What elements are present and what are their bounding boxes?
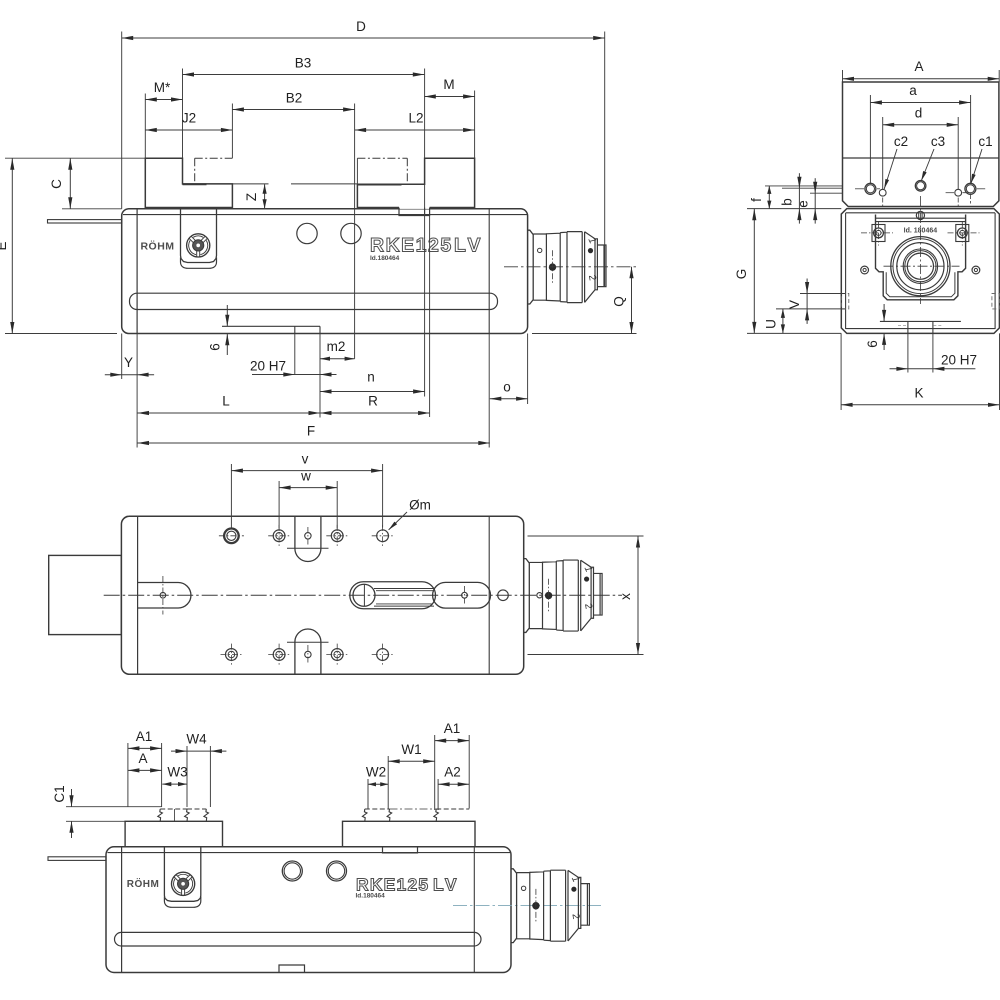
C1 extension lines (66, 806, 162, 808)
svg-text:b: b (780, 198, 795, 206)
E extension bottom (5, 333, 117, 335)
jaw mount pad view3 (433, 582, 491, 608)
svg-text:A1: A1 (444, 721, 461, 736)
knob housing view4 (164, 847, 200, 901)
svg-text:Id.180464: Id.180464 (356, 893, 386, 900)
small screw on spindle view1 (538, 248, 542, 252)
dimension C1 (71, 789, 73, 807)
small hole c2 view2 (879, 189, 886, 196)
dimension M* (145, 99, 182, 101)
right bearing view2 (956, 225, 969, 242)
outer hole right c1 view2 (965, 183, 976, 194)
clamp knob view1 (187, 234, 210, 257)
dimension a (870, 102, 970, 104)
left bearing view2 (872, 225, 885, 242)
svg-text:o: o (503, 380, 511, 395)
top notch view4 (383, 847, 418, 853)
bottom recess line view2 (880, 320, 961, 322)
dimension Y (105, 374, 154, 376)
dimension C (69, 158, 71, 209)
svg-text:B2: B2 (286, 91, 303, 106)
jaw gap line view1 (207, 183, 269, 185)
left jaw block view1 (145, 158, 232, 207)
dimension m2 (320, 358, 355, 360)
fixed jaw plate line view1 (136, 209, 138, 334)
dimension o (490, 398, 528, 400)
body outline view2 (841, 209, 999, 334)
svg-text:Y: Y (124, 355, 133, 370)
spindle bore circles view2 (891, 237, 950, 296)
jaw plate block view2 (843, 82, 999, 207)
spindle screw view3 (537, 593, 542, 598)
hole level stub lines view2 (765, 185, 843, 187)
dimension W3 (162, 783, 187, 785)
bore center lines view2 (884, 265, 960, 267)
dimension M (424, 96, 474, 98)
clamp knob view4 (172, 872, 195, 895)
top hole row view3 (224, 529, 239, 544)
dimension Q (631, 267, 633, 334)
svg-text:Øm: Øm (409, 498, 431, 513)
side stop bar view4 (48, 857, 106, 861)
hidden keyway right view2 (992, 294, 1000, 309)
fixed plate line view4 (121, 847, 123, 973)
body top notch view1 (400, 208, 429, 209)
drawbar slot view3 (350, 582, 436, 609)
dimension W4 (171, 750, 226, 752)
extension lines view2 (842, 70, 844, 82)
cavity top rails view2 (876, 217, 966, 219)
body end-cap line view1 (488, 209, 490, 334)
svg-text:F: F (307, 424, 315, 439)
svg-text:f: f (749, 198, 764, 202)
svg-text:e: e (796, 200, 811, 208)
svg-text:C: C (49, 179, 64, 189)
Q bottom extension (532, 333, 637, 335)
spindle screw view4 (521, 886, 525, 890)
left clamp plate view4 (125, 821, 222, 847)
stop stud left-2 view4 (204, 809, 209, 821)
dimension b (798, 173, 800, 223)
hole circles view4 (282, 861, 302, 881)
svg-text:c3: c3 (931, 134, 945, 149)
dimension f (768, 186, 770, 209)
svg-text:R: R (368, 394, 378, 409)
slide cavity view2 (876, 215, 966, 300)
micrometer spindle view1 (528, 230, 606, 304)
svg-text:x: x (618, 593, 633, 600)
svg-text:W3: W3 (167, 765, 187, 780)
side screw left view2 (861, 266, 869, 274)
leader c2 (884, 149, 897, 189)
keyway groove view1 (294, 326, 296, 333)
right clamp plate view4 (343, 821, 476, 847)
dimension A2 (438, 783, 469, 785)
right jaw step dark edge (357, 184, 401, 186)
pad hole view3 (462, 592, 468, 598)
dimension A1 left (128, 747, 162, 749)
svg-text:V: V (787, 300, 802, 309)
dimension D (122, 37, 605, 39)
svg-text:C1: C1 (52, 785, 67, 802)
center hole c3 view2 (915, 181, 926, 192)
dimension U (782, 309, 784, 334)
left jaw step dark edge (183, 183, 207, 185)
dimension A (843, 78, 1000, 80)
svg-text:LV: LV (454, 235, 483, 257)
svg-text:20 H7: 20 H7 (250, 359, 286, 374)
leader c1 (971, 149, 982, 184)
svg-text:A: A (914, 59, 923, 74)
dimension x (637, 536, 639, 655)
svg-text:RKE125: RKE125 (370, 235, 453, 257)
body outline view1 (122, 209, 528, 334)
svg-text:n: n (367, 370, 375, 385)
bottom hole row view3 (226, 649, 238, 661)
drawbar shaft view3 (374, 588, 434, 590)
dimension B2 (232, 109, 354, 111)
svg-text:L2: L2 (408, 111, 423, 126)
spindle axis centerline view4 (453, 904, 601, 906)
dimension L2 (355, 129, 475, 131)
dimension 6 view1 (226, 305, 228, 326)
svg-text:20 H7: 20 H7 (941, 353, 977, 368)
bottom recess line view1 (222, 325, 320, 327)
svg-text:D: D (356, 19, 366, 34)
svg-text:d: d (915, 106, 923, 121)
dimension 20H7 view1 (252, 374, 337, 376)
dimension d (883, 124, 959, 126)
bottom notch view4 (279, 965, 305, 972)
dimension 6 view2 (883, 304, 885, 321)
micrometer spindle view4 (511, 869, 589, 943)
dimension w (279, 487, 337, 489)
left slot view3 (138, 583, 191, 609)
svg-text:RKE125: RKE125 (356, 875, 429, 895)
dimension B3 (183, 74, 425, 76)
C bottom extension (62, 208, 122, 210)
long slot view4 (115, 932, 482, 946)
svg-text:Z: Z (244, 193, 259, 201)
svg-text:Q: Q (612, 296, 627, 307)
micrometer spindle view3 (524, 559, 602, 633)
svg-text:A2: A2 (444, 765, 461, 780)
svg-text:c1: c1 (978, 134, 992, 149)
fixed plate line view3 (137, 516, 139, 674)
small hole right view2 (955, 189, 962, 196)
dimension A (128, 769, 162, 771)
svg-text:A: A (138, 751, 147, 766)
extension lines view3 (230, 464, 232, 528)
dimension e (814, 178, 816, 223)
drawbar screw view3 (353, 584, 375, 606)
dimension L (138, 412, 321, 414)
dimension K (841, 404, 999, 406)
dimension R (320, 412, 430, 414)
bottom keyway groove view2 (907, 321, 909, 333)
top screw view2 (916, 211, 924, 219)
dimension V (806, 279, 808, 324)
svg-text:c2: c2 (894, 134, 908, 149)
slide cavity inner line view2 (886, 272, 955, 297)
E extension top (5, 157, 145, 159)
svg-text:6: 6 (208, 343, 223, 351)
hidden keyway left view2 (841, 294, 849, 309)
svg-text:A1: A1 (136, 729, 153, 744)
top U-slot view3 (294, 516, 296, 548)
svg-text:RÖHM: RÖHM (127, 877, 160, 890)
svg-text:B3: B3 (295, 56, 312, 71)
bottom U-slot view3 (294, 642, 296, 674)
dimension A1 right (435, 740, 470, 742)
body outline view3 (121, 516, 523, 674)
body outline view4 (106, 847, 511, 973)
leader c3 (921, 149, 934, 181)
spindle axis centerline view1 (504, 266, 637, 268)
svg-text:W2: W2 (366, 765, 386, 780)
end block hole view3 (498, 590, 509, 601)
jaw plate mid line view2 (843, 157, 999, 159)
left jaw hidden insert dash-dot box (195, 157, 233, 159)
end cap line view4 (473, 847, 475, 973)
svg-text:M*: M* (154, 80, 171, 95)
dimension W1 (388, 760, 435, 762)
outer hole left view2 (865, 183, 876, 194)
svg-text:M: M (443, 77, 454, 92)
side screw right view2 (972, 266, 980, 274)
right jaw block view1 (357, 158, 474, 207)
dimension 20H7 view2 (890, 368, 976, 370)
svg-text:RÖHM: RÖHM (140, 240, 174, 253)
svg-text:E: E (0, 241, 9, 250)
stop stud left-1 view4 (158, 809, 163, 821)
right jaw hidden insert dash-dot box (357, 157, 407, 159)
svg-text:L: L (222, 394, 230, 409)
svg-text:K: K (914, 386, 923, 401)
end cap line view3 (488, 516, 490, 674)
svg-text:LV: LV (433, 875, 459, 895)
svg-text:w: w (300, 469, 311, 484)
dimension G (753, 209, 755, 334)
svg-text:W4: W4 (186, 732, 207, 747)
svg-text:G: G (734, 269, 749, 280)
svg-text:U: U (764, 319, 779, 329)
svg-text:m2: m2 (327, 339, 346, 354)
extension lines view1 (121, 32, 123, 209)
left end block view3 (49, 555, 122, 634)
dimension W2 (368, 783, 388, 785)
side stop bar view1 (48, 220, 122, 223)
dimension Z (264, 184, 266, 209)
svg-text:W1: W1 (401, 742, 421, 757)
dimension E (11, 158, 13, 333)
knob housing view1 (181, 209, 217, 263)
dimension v (231, 470, 382, 472)
main centerline view3 (104, 594, 622, 596)
body top inner line view1 (123, 214, 527, 216)
extension lines view4 (127, 743, 129, 807)
long slot view1 (130, 293, 498, 309)
phantom stud line view4 (390, 808, 437, 810)
stop stud right-2 view4 (434, 809, 439, 821)
svg-text:Id.180464: Id.180464 (370, 255, 400, 262)
hole circles on body view1 (297, 223, 317, 243)
svg-text:6: 6 (865, 340, 880, 348)
left slot hole view3 (160, 592, 166, 598)
dimension F (138, 442, 490, 444)
svg-text:a: a (909, 83, 917, 98)
hole axis dashes below view2 (882, 198, 884, 210)
stop stud right-1 view4 (362, 809, 367, 821)
dimension J2 (145, 129, 232, 131)
dimension n (320, 391, 425, 393)
body inner wall lines view2 (845, 213, 847, 329)
svg-text:J2: J2 (182, 111, 196, 126)
body top inner line view4 (108, 852, 511, 854)
svg-text:v: v (302, 452, 309, 467)
